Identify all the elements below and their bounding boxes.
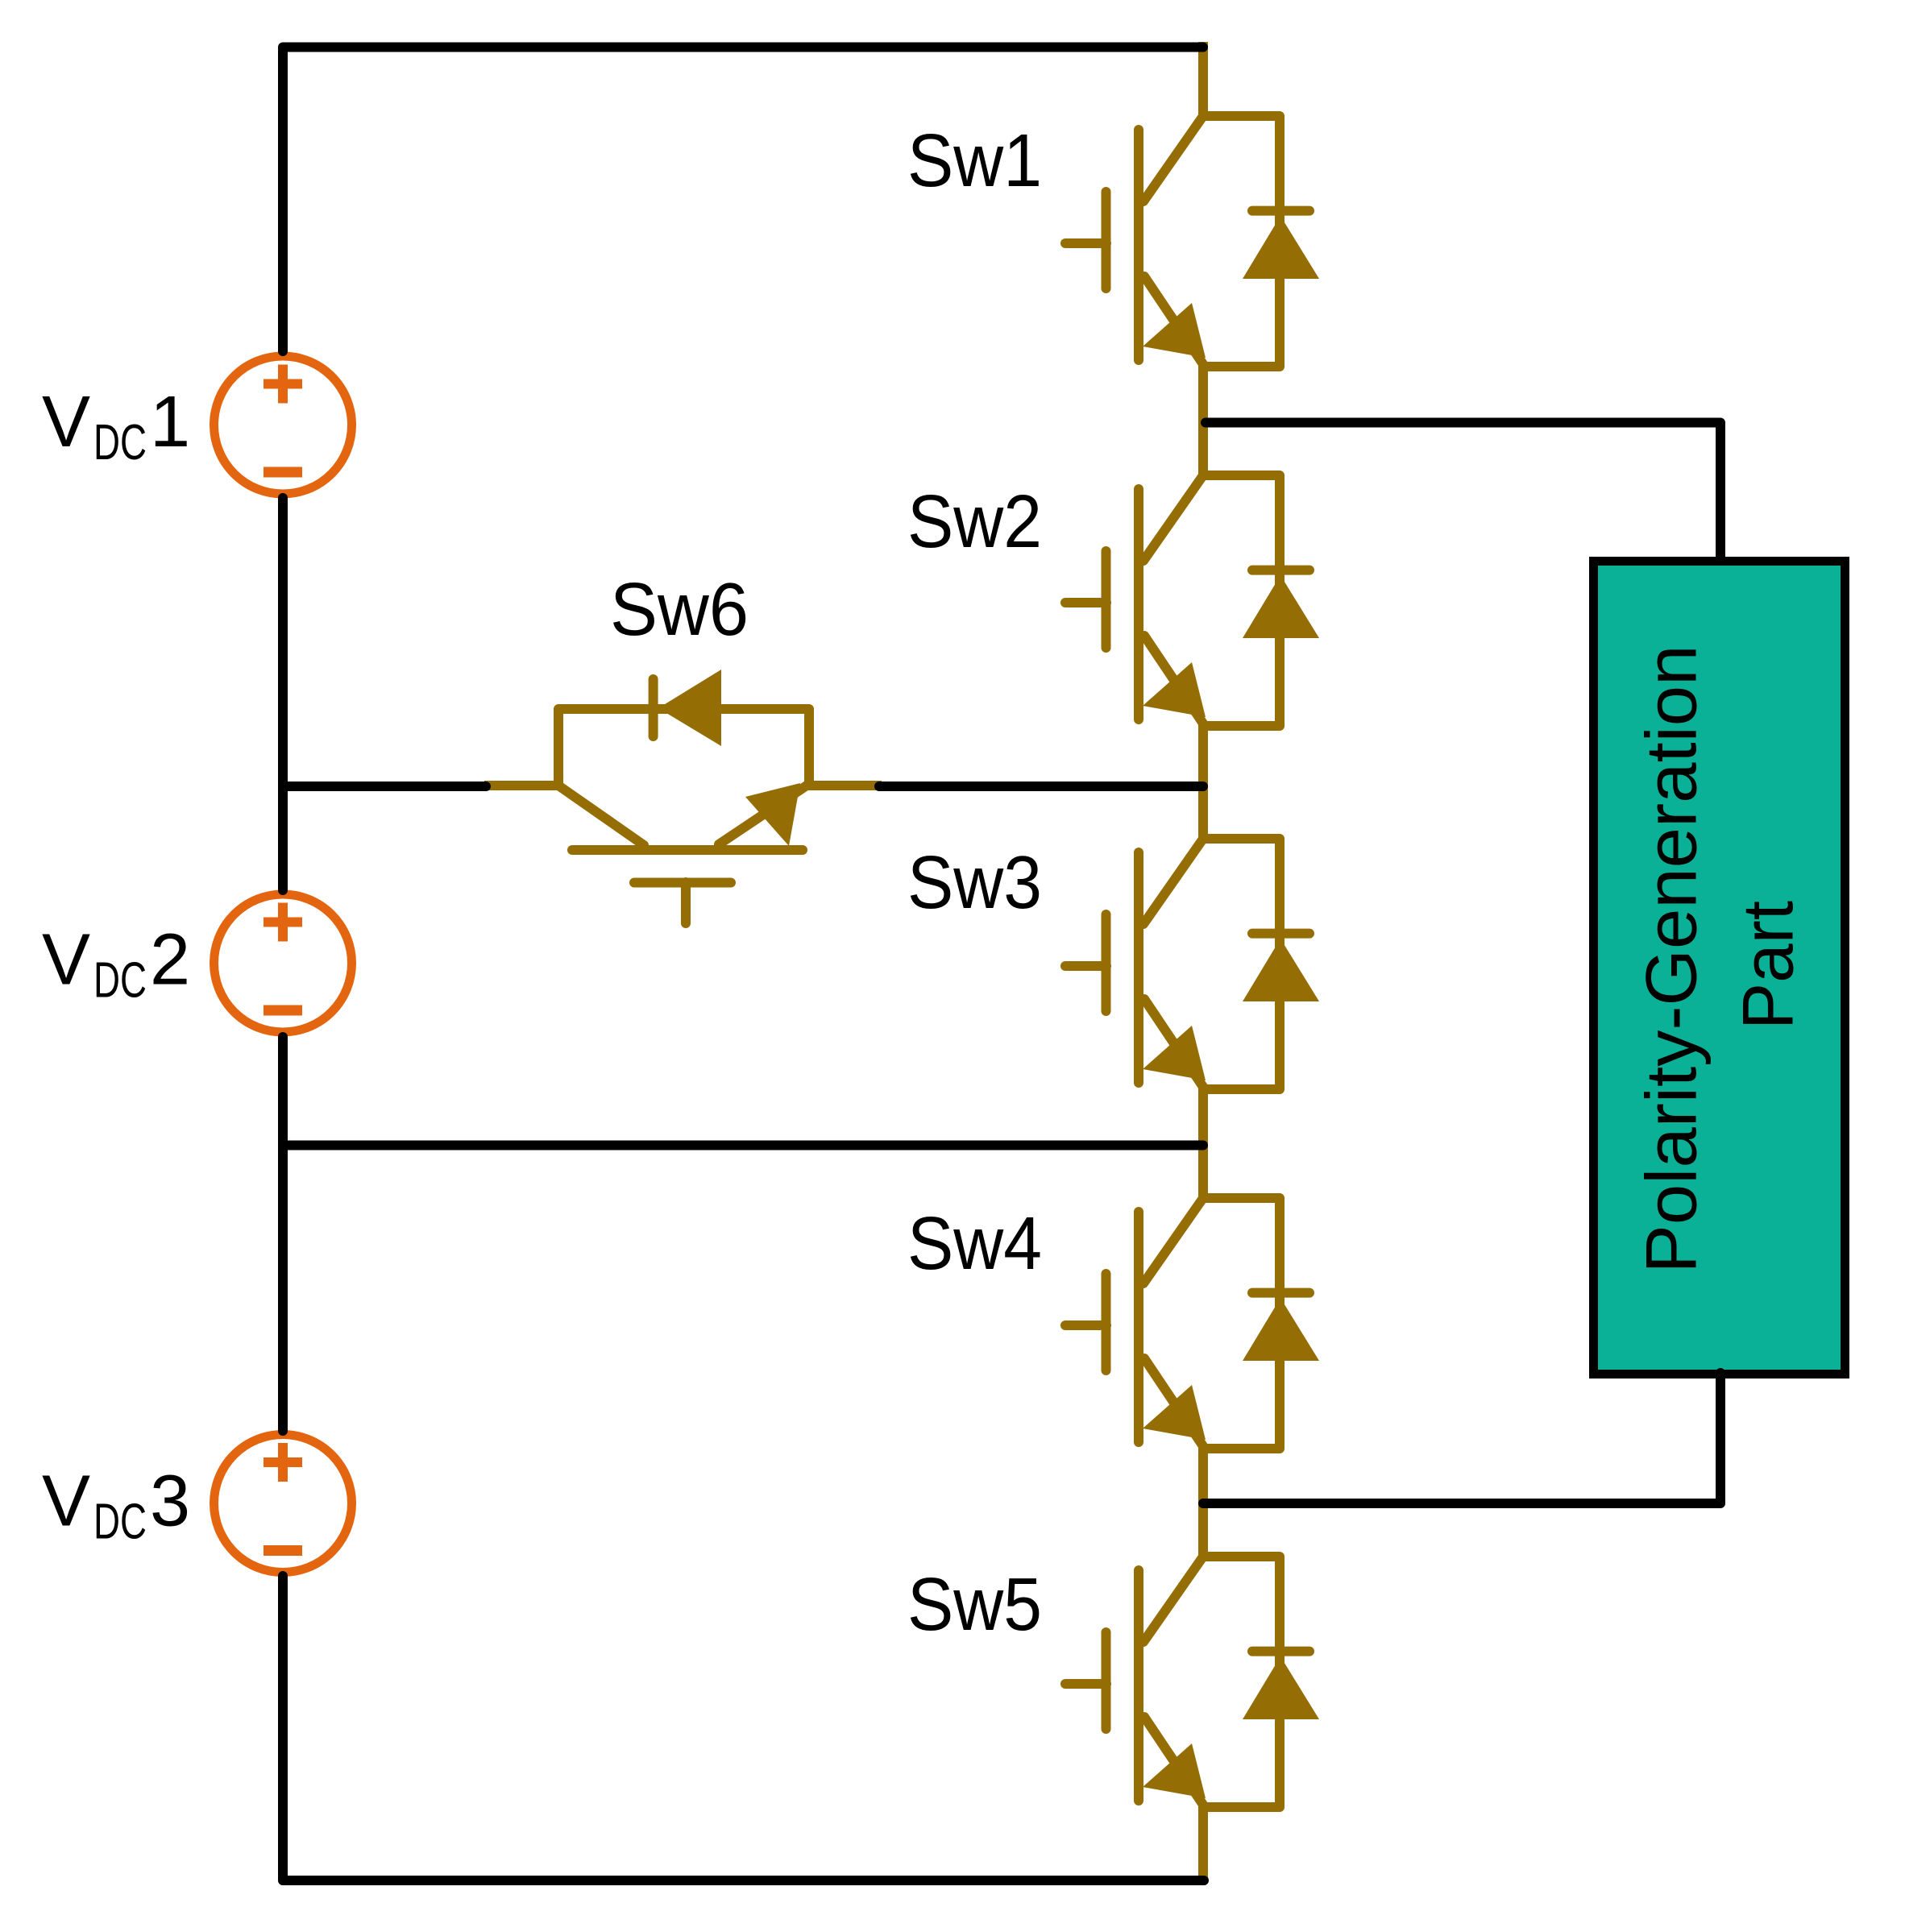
- transistor Sw5: [1065, 1482, 1319, 1880]
- svg-text:1: 1: [150, 382, 190, 462]
- wire: Polarity box bottom to node between Sw4 and Sw5: [1203, 1373, 1720, 1503]
- source VDC3: [214, 1435, 352, 1573]
- transistor Sw3: [1065, 765, 1319, 1162]
- svg-text:DC: DC: [93, 1495, 147, 1550]
- svg-text:Polarity-Generation: Polarity-Generation: [1631, 645, 1712, 1274]
- svg-text:Sw5: Sw5: [907, 1562, 1042, 1646]
- transistor Sw2: [1065, 401, 1319, 798]
- wire: left bus VDC2 to VDC3: [278, 1037, 288, 1431]
- transistor Sw6 (rotated bidirectional switch): [484, 670, 882, 923]
- svg-text:2: 2: [150, 920, 190, 1001]
- label VDC2: [42, 920, 190, 1009]
- wire: Sw6 emitter to node between Sw2 and Sw3: [879, 782, 1203, 791]
- svg-text:Sw1: Sw1: [907, 118, 1042, 202]
- source VDC1: [214, 356, 352, 494]
- svg-text:V: V: [42, 382, 90, 462]
- svg-text:DC: DC: [93, 415, 147, 471]
- label VDC1: [42, 382, 190, 471]
- transistor Sw1: [1065, 42, 1319, 439]
- box Polarity-Generation Part: [1594, 562, 1845, 1374]
- wire: top rail from VDC1 top up and right to Sw1 collector: [283, 48, 1203, 352]
- svg-text:DC: DC: [93, 953, 147, 1009]
- wire: mid node VDC1/VDC2 to Sw6 collector: [283, 782, 486, 791]
- svg-text:Part: Part: [1728, 901, 1808, 1030]
- transistor Sw4: [1065, 1124, 1319, 1521]
- source VDC2: [214, 894, 352, 1032]
- svg-text:Sw3: Sw3: [907, 840, 1042, 924]
- svg-text:3: 3: [150, 1461, 190, 1542]
- svg-text:Sw4: Sw4: [907, 1201, 1042, 1285]
- wire: left bus VDC1 to VDC2: [278, 498, 288, 890]
- wire: node between Sw1 and Sw2 to Polarity box top: [1206, 423, 1720, 562]
- label VDC3: [42, 1461, 190, 1550]
- wire: left bus VDC3 down and bottom rail to Sw5 emitter: [283, 1576, 1204, 1880]
- svg-text:V: V: [42, 920, 90, 1001]
- svg-text:Sw6: Sw6: [610, 567, 749, 651]
- wire: node VDC2/VDC3 to node between Sw3 and Sw4: [283, 1141, 1203, 1150]
- svg-text:Sw2: Sw2: [907, 479, 1042, 563]
- svg-text:V: V: [42, 1461, 90, 1542]
